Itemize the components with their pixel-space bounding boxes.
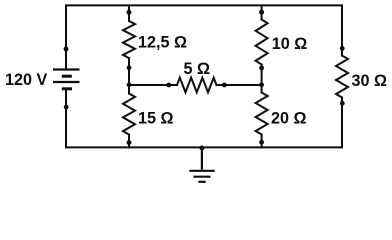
svg-text:5 Ω: 5 Ω — [184, 60, 211, 78]
node 5 ohm left junction — [127, 82, 132, 87]
wire 5-ohm bridge left segment — [129, 84, 177, 86]
wire top rail — [66, 4, 342, 6]
node ground junction — [199, 146, 204, 151]
node on left rail — [64, 47, 69, 52]
node 5 ohm right terminal — [222, 83, 227, 88]
node below battery — [64, 105, 69, 110]
node bottom of 10 ohm — [259, 66, 264, 71]
node bottom of 15 ohm — [127, 140, 132, 145]
svg-text:12,5 Ω: 12,5 Ω — [138, 34, 187, 52]
svg-text:120 V: 120 V — [5, 71, 48, 89]
resistor 12.5 ohm — [123, 21, 135, 58]
node top of 10 ohm branch — [259, 10, 264, 15]
wire right-middle branch lower stub — [261, 135, 263, 148]
battery short plate 1 — [62, 75, 72, 78]
wire right rail upper — [341, 5, 343, 55]
svg-text:10 Ω: 10 Ω — [272, 35, 308, 53]
wire right-middle branch mid — [261, 65, 263, 93]
node bottom of 30 ohm — [340, 101, 345, 106]
wire right rail lower — [341, 98, 343, 148]
wire left-middle branch mid — [128, 58, 130, 94]
wire left rail upper — [65, 5, 67, 68]
wire bottom rail — [66, 146, 342, 148]
wire left-middle branch lower stub — [128, 135, 130, 148]
battery long plate 1 — [53, 68, 80, 70]
wire right-middle branch upper stub — [261, 5, 263, 19]
node bottom of 20 ohm — [259, 140, 264, 145]
wire left rail lower — [65, 89, 67, 147]
node bottom of 12.5 ohm — [127, 65, 132, 70]
svg-text:20 Ω: 20 Ω — [271, 109, 307, 127]
node top of 12.5 ohm branch — [127, 10, 132, 15]
node on right rail — [340, 46, 345, 51]
resistor 10 ohm — [256, 20, 268, 65]
ground — [189, 147, 214, 181]
battery V1 120 V — [53, 70, 80, 89]
wire 5-ohm bridge right segment — [217, 84, 262, 86]
node 5 ohm right junction — [259, 82, 264, 87]
svg-text:15 Ω: 15 Ω — [138, 109, 174, 127]
resistor 5 ohm — [177, 78, 217, 93]
svg-text:30 Ω: 30 Ω — [352, 72, 388, 90]
resistor 15 ohm — [123, 94, 135, 135]
resistor 20 ohm — [256, 93, 268, 135]
battery long plate 2 — [53, 81, 80, 83]
resistor 30 ohm — [336, 56, 348, 98]
battery short plate 2 — [62, 87, 72, 90]
wire left-middle branch upper stub — [128, 5, 130, 21]
node 5 ohm left terminal — [166, 83, 171, 88]
